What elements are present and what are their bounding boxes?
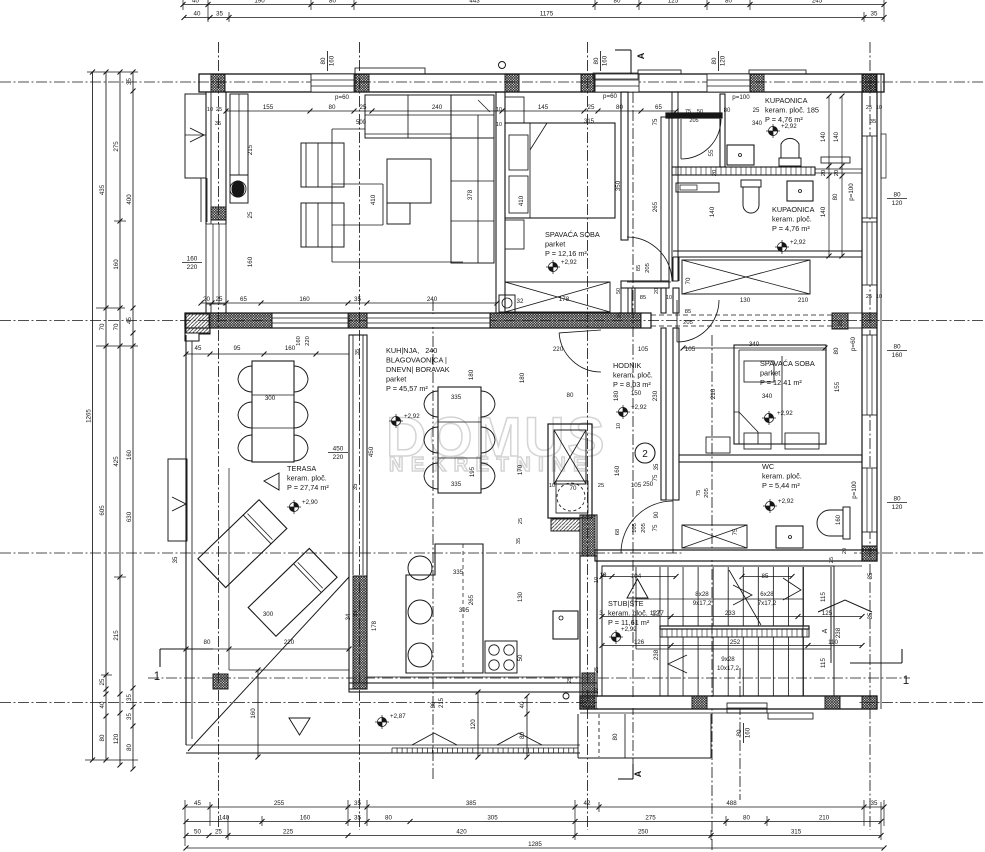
svg-text:35: 35	[354, 296, 361, 303]
svg-text:1: 1	[903, 675, 909, 687]
svg-text:80: 80	[711, 57, 718, 64]
svg-text:p=60: p=60	[335, 94, 349, 101]
svg-text:70: 70	[99, 323, 106, 330]
svg-text:340: 340	[762, 393, 773, 400]
svg-text:75: 75	[732, 528, 739, 535]
svg-text:205: 205	[689, 118, 698, 124]
svg-text:300: 300	[265, 395, 276, 402]
svg-text:500: 500	[356, 120, 367, 126]
svg-text:1285: 1285	[528, 841, 542, 848]
svg-text:300: 300	[263, 611, 274, 618]
svg-text:210: 210	[819, 815, 830, 822]
svg-text:90: 90	[654, 511, 660, 518]
svg-text:9x17,2: 9x17,2	[693, 600, 712, 607]
svg-text:35: 35	[354, 815, 361, 822]
svg-text:+2,92: +2,92	[777, 410, 793, 417]
svg-text:145: 145	[538, 104, 549, 111]
svg-text:160: 160	[300, 815, 311, 822]
svg-text:1175: 1175	[540, 11, 554, 18]
svg-text:105: 105	[685, 346, 696, 353]
svg-text:35: 35	[216, 11, 223, 18]
svg-text:95: 95	[234, 345, 241, 352]
svg-text:75: 75	[653, 118, 659, 125]
svg-text:35: 35	[126, 694, 133, 701]
svg-text:80: 80	[893, 344, 901, 351]
svg-text:130: 130	[740, 297, 751, 304]
svg-text:315: 315	[791, 829, 802, 836]
svg-text:160: 160	[187, 256, 198, 263]
svg-text:25: 25	[838, 320, 844, 326]
svg-text:80: 80	[519, 732, 526, 739]
svg-text:40: 40	[194, 11, 201, 18]
svg-text:315: 315	[584, 119, 595, 125]
svg-text:25: 25	[588, 104, 595, 111]
svg-text:115: 115	[820, 658, 827, 668]
svg-text:350: 350	[615, 180, 622, 191]
svg-text:160: 160	[296, 336, 302, 346]
svg-text:35: 35	[870, 119, 876, 125]
svg-text:80: 80	[833, 193, 839, 200]
svg-text:205: 205	[645, 263, 651, 273]
svg-text:75: 75	[652, 524, 659, 531]
svg-text:205: 205	[683, 320, 693, 326]
svg-text:10: 10	[876, 105, 882, 111]
svg-text:150: 150	[631, 390, 642, 397]
svg-text:160: 160	[614, 465, 621, 476]
svg-text:35: 35	[516, 538, 522, 544]
svg-text:178: 178	[559, 296, 570, 303]
svg-text:220: 220	[284, 639, 295, 646]
svg-text:P = 45,57 m²: P = 45,57 m²	[386, 384, 428, 393]
svg-text:NEKRETNINE: NEKRETNINE	[389, 454, 594, 476]
svg-text:443: 443	[469, 0, 480, 5]
svg-text:80: 80	[567, 392, 574, 399]
svg-text:7x17,2: 7x17,2	[758, 600, 777, 607]
svg-text:A: A	[822, 628, 829, 633]
svg-text:252: 252	[730, 639, 741, 646]
svg-text:8x28: 8x28	[695, 591, 709, 598]
svg-text:178: 178	[372, 620, 378, 631]
svg-text:+2,92: +2,92	[790, 239, 806, 246]
svg-text:keram. ploč. 127: keram. ploč. 127	[608, 609, 664, 618]
svg-text:25: 25	[99, 678, 106, 685]
svg-text:25: 25	[247, 211, 254, 218]
svg-text:240: 240	[432, 104, 443, 111]
svg-text:85: 85	[640, 295, 646, 301]
svg-text:120: 120	[470, 719, 477, 730]
svg-text:410: 410	[370, 194, 377, 205]
svg-text:20: 20	[821, 170, 827, 176]
svg-text:395: 395	[459, 607, 470, 614]
svg-text:3: 3	[599, 610, 603, 617]
svg-text:140: 140	[709, 206, 716, 217]
svg-text:25: 25	[829, 557, 835, 563]
svg-text:10: 10	[616, 423, 622, 429]
svg-text:10: 10	[496, 122, 502, 128]
svg-text:120: 120	[113, 733, 120, 744]
svg-text:160: 160	[299, 296, 310, 303]
svg-text:130: 130	[518, 591, 524, 602]
svg-text:265: 265	[652, 201, 659, 212]
svg-text:80: 80	[329, 0, 336, 5]
svg-text:25: 25	[518, 518, 524, 524]
svg-text:85: 85	[636, 265, 642, 271]
svg-text:220: 220	[333, 454, 344, 461]
svg-text:10: 10	[876, 294, 882, 300]
svg-text:70: 70	[570, 485, 577, 492]
svg-text:keram. ploč.: keram. ploč.	[287, 474, 327, 483]
svg-text:80: 80	[724, 108, 731, 114]
svg-text:A: A	[633, 770, 643, 777]
svg-text:190: 190	[254, 0, 265, 5]
svg-text:45: 45	[195, 345, 202, 352]
svg-text:parket: parket	[545, 240, 565, 249]
svg-text:488: 488	[726, 800, 737, 807]
svg-text:STUB|ŠTE: STUB|ŠTE	[608, 599, 644, 608]
svg-text:25: 25	[617, 312, 623, 318]
svg-text:WC: WC	[762, 462, 774, 471]
svg-text:TERASA: TERASA	[287, 464, 316, 473]
svg-text:275: 275	[645, 815, 656, 822]
svg-text:25: 25	[594, 667, 600, 673]
svg-text:35: 35	[654, 463, 660, 470]
svg-text:A: A	[636, 52, 646, 59]
svg-text:35: 35	[173, 556, 179, 563]
svg-text:35: 35	[868, 612, 874, 619]
svg-text:35: 35	[353, 483, 359, 490]
svg-text:25: 25	[598, 483, 604, 489]
svg-text:P = 12,16 m²: P = 12,16 m²	[545, 249, 587, 258]
svg-text:35: 35	[868, 572, 874, 579]
svg-text:65: 65	[240, 296, 247, 303]
svg-text:126: 126	[634, 639, 645, 646]
svg-text:45: 45	[126, 317, 133, 324]
svg-text:SPAVAĆA SOBA: SPAVAĆA SOBA	[760, 359, 815, 368]
svg-text:25: 25	[215, 829, 222, 836]
svg-text:70: 70	[685, 277, 692, 284]
svg-text:210: 210	[798, 297, 809, 304]
svg-text:35: 35	[126, 78, 133, 85]
svg-text:P = 8,03 m²: P = 8,03 m²	[613, 380, 651, 389]
svg-text:160: 160	[836, 514, 842, 525]
svg-text:80: 80	[385, 815, 392, 822]
svg-text:110: 110	[828, 639, 838, 646]
svg-text:+2,92: +2,92	[781, 123, 797, 130]
svg-text:250: 250	[638, 829, 649, 836]
svg-text:20: 20	[834, 170, 840, 176]
svg-text:340: 340	[749, 341, 760, 348]
svg-text:35: 35	[354, 800, 361, 807]
svg-text:105: 105	[638, 346, 649, 353]
svg-text:160: 160	[113, 259, 120, 270]
svg-text:160: 160	[329, 55, 336, 66]
svg-text:245: 245	[812, 0, 823, 5]
svg-text:keram. ploč.: keram. ploč.	[613, 371, 653, 380]
svg-text:265: 265	[468, 594, 475, 605]
svg-text:p=60: p=60	[603, 93, 617, 100]
svg-text:40: 40	[99, 701, 106, 708]
svg-text:68: 68	[615, 529, 621, 535]
svg-text:80: 80	[893, 496, 901, 503]
svg-text:215: 215	[247, 144, 254, 155]
svg-text:435: 435	[99, 184, 106, 195]
svg-text:p=100: p=100	[851, 481, 858, 499]
svg-text:10: 10	[666, 295, 672, 301]
svg-text:120: 120	[892, 200, 903, 207]
svg-text:160: 160	[892, 352, 903, 359]
svg-text:35: 35	[353, 610, 359, 617]
svg-text:25: 25	[216, 296, 223, 303]
svg-text:+2,92: +2,92	[561, 259, 577, 266]
svg-text:160: 160	[285, 345, 296, 352]
svg-text:80: 80	[329, 104, 336, 111]
svg-text:275: 275	[113, 141, 120, 152]
svg-text:230: 230	[652, 390, 659, 401]
svg-text:parket: parket	[760, 369, 780, 378]
svg-text:25: 25	[360, 104, 367, 111]
svg-text:P = 4,76 m²: P = 4,76 m²	[772, 224, 810, 233]
svg-text:20: 20	[654, 288, 660, 294]
svg-text:410: 410	[518, 195, 525, 206]
svg-text:+2,90: +2,90	[302, 499, 318, 506]
svg-text:70: 70	[113, 323, 120, 330]
svg-text:450: 450	[333, 446, 344, 453]
svg-text:400: 400	[126, 194, 133, 205]
svg-text:85: 85	[685, 309, 691, 315]
svg-text:P = 12,41 m²: P = 12,41 m²	[760, 378, 802, 387]
svg-text:220: 220	[305, 336, 311, 346]
svg-text:335: 335	[453, 569, 464, 576]
svg-text:34: 34	[346, 613, 352, 620]
svg-text:425: 425	[113, 456, 120, 467]
svg-text:P = 27,74 m²: P = 27,74 m²	[287, 483, 329, 492]
svg-text:80: 80	[126, 744, 133, 751]
svg-text:P = 5,44 m²: P = 5,44 m²	[762, 481, 800, 490]
svg-text:205: 205	[641, 523, 647, 533]
svg-text:10: 10	[207, 107, 213, 113]
svg-text:65: 65	[655, 104, 662, 111]
svg-text:10: 10	[549, 483, 555, 489]
svg-text:80: 80	[431, 701, 437, 708]
svg-text:+2,92: +2,92	[778, 498, 794, 505]
svg-text:42: 42	[584, 800, 591, 807]
svg-text:420: 420	[456, 829, 467, 836]
svg-text:35: 35	[126, 713, 133, 720]
svg-text:+2,92: +2,92	[621, 626, 637, 633]
svg-text:40: 40	[519, 701, 526, 708]
svg-text:KUH|NJA, 240: KUH|NJA, 240	[386, 346, 437, 355]
svg-text:215: 215	[113, 630, 120, 641]
svg-text:HODNIK: HODNIK	[613, 361, 642, 370]
svg-text:210: 210	[710, 388, 717, 399]
svg-text:6x28: 6x28	[760, 591, 774, 598]
svg-text:120: 120	[892, 504, 903, 511]
svg-text:125: 125	[668, 0, 679, 5]
svg-text:+2,92: +2,92	[631, 404, 647, 411]
svg-text:20: 20	[712, 170, 718, 176]
svg-text:DNEVN| BORAVAK: DNEVN| BORAVAK	[386, 365, 450, 374]
svg-text:80: 80	[614, 0, 621, 5]
svg-text:155: 155	[263, 104, 274, 111]
svg-text:parket: parket	[386, 375, 406, 384]
svg-text:35: 35	[871, 11, 878, 18]
svg-text:keram. ploč.: keram. ploč.	[772, 215, 812, 224]
svg-text:20: 20	[842, 548, 848, 554]
svg-text:160: 160	[250, 708, 257, 719]
svg-text:238: 238	[653, 649, 660, 660]
svg-text:120: 120	[720, 55, 727, 66]
svg-text:80: 80	[593, 57, 600, 64]
svg-text:305: 305	[487, 815, 498, 822]
svg-text:75: 75	[685, 109, 691, 115]
svg-text:BLAGOVAON|CA |: BLAGOVAON|CA |	[386, 356, 447, 365]
svg-text:50: 50	[697, 109, 703, 115]
svg-text:80: 80	[99, 734, 106, 741]
svg-text:2: 2	[642, 449, 648, 460]
svg-text:80: 80	[893, 192, 901, 199]
svg-text:80: 80	[833, 347, 840, 354]
svg-text:255: 255	[274, 800, 285, 807]
svg-text:195: 195	[469, 466, 476, 477]
svg-text:20: 20	[203, 296, 210, 303]
svg-text:KUPAONICA: KUPAONICA	[765, 96, 808, 105]
svg-text:160: 160	[745, 727, 752, 738]
svg-text:p=60: p=60	[850, 336, 857, 350]
svg-text:25: 25	[753, 108, 760, 114]
svg-text:335: 335	[451, 394, 462, 401]
svg-text:p=100: p=100	[848, 183, 855, 201]
svg-text:80: 80	[616, 104, 623, 111]
svg-text:+2,92: +2,92	[404, 413, 420, 420]
svg-text:105: 105	[632, 523, 638, 533]
svg-text:160: 160	[247, 256, 254, 267]
svg-text:160: 160	[127, 449, 133, 460]
svg-text:25: 25	[866, 105, 872, 111]
svg-text:250: 250	[643, 481, 654, 488]
svg-text:105: 105	[631, 482, 642, 489]
svg-text:155: 155	[834, 381, 841, 392]
svg-text:220: 220	[187, 264, 198, 271]
svg-text:35: 35	[871, 800, 878, 807]
svg-text:170: 170	[517, 464, 524, 475]
svg-text:1: 1	[154, 671, 160, 683]
svg-text:180: 180	[468, 369, 475, 380]
svg-text:80: 80	[320, 57, 327, 64]
svg-text:238: 238	[835, 627, 842, 638]
svg-text:605: 605	[99, 505, 106, 516]
svg-text:225: 225	[283, 829, 294, 836]
svg-text:140: 140	[820, 206, 827, 217]
svg-text:50: 50	[616, 288, 622, 294]
svg-text:220: 220	[553, 346, 564, 353]
svg-text:240: 240	[427, 296, 438, 303]
svg-text:205: 205	[704, 488, 710, 498]
svg-text:10x17,2: 10x17,2	[717, 665, 740, 672]
svg-text:233: 233	[725, 610, 736, 617]
svg-text:125: 125	[822, 610, 833, 617]
svg-text:35: 35	[215, 121, 221, 127]
svg-text:32: 32	[517, 298, 524, 305]
svg-text:50: 50	[194, 829, 201, 836]
svg-text:180: 180	[613, 390, 620, 401]
svg-text:160: 160	[602, 55, 609, 66]
svg-text:335: 335	[451, 481, 462, 488]
svg-text:80: 80	[736, 729, 743, 736]
svg-text:1265: 1265	[86, 409, 93, 423]
svg-text:p=100: p=100	[732, 94, 750, 101]
svg-text:55: 55	[708, 149, 715, 156]
svg-text:378: 378	[467, 189, 474, 200]
svg-text:25: 25	[866, 294, 872, 300]
svg-text:45: 45	[194, 800, 201, 807]
svg-text:35: 35	[355, 349, 361, 355]
svg-text:10: 10	[594, 577, 600, 583]
svg-text:80: 80	[204, 639, 211, 646]
svg-text:KUPAONICA: KUPAONICA	[772, 205, 815, 214]
svg-text:450: 450	[368, 446, 375, 457]
svg-text:+2,87: +2,87	[390, 713, 406, 720]
svg-text:50: 50	[518, 654, 524, 661]
svg-text:25: 25	[567, 677, 573, 683]
svg-text:140: 140	[834, 131, 840, 142]
svg-text:keram. ploč. 185: keram. ploč. 185	[765, 106, 819, 115]
svg-text:80: 80	[725, 0, 732, 5]
svg-text:25: 25	[216, 107, 222, 113]
svg-text:215: 215	[439, 697, 445, 708]
svg-text:340: 340	[752, 121, 763, 127]
svg-text:630: 630	[126, 511, 133, 522]
svg-text:80: 80	[612, 733, 619, 740]
svg-text:SPAVAĆA SOBA: SPAVAĆA SOBA	[545, 230, 600, 239]
svg-text:10: 10	[594, 688, 600, 694]
svg-text:115: 115	[820, 592, 827, 602]
svg-text:75: 75	[696, 490, 702, 496]
svg-text:40: 40	[192, 0, 199, 5]
svg-text:9x28: 9x28	[721, 656, 735, 663]
svg-text:80: 80	[743, 815, 750, 822]
svg-text:140: 140	[821, 131, 827, 142]
svg-text:385: 385	[466, 800, 477, 807]
svg-text:keram. ploč.: keram. ploč.	[762, 472, 802, 481]
svg-text:180: 180	[519, 372, 526, 383]
